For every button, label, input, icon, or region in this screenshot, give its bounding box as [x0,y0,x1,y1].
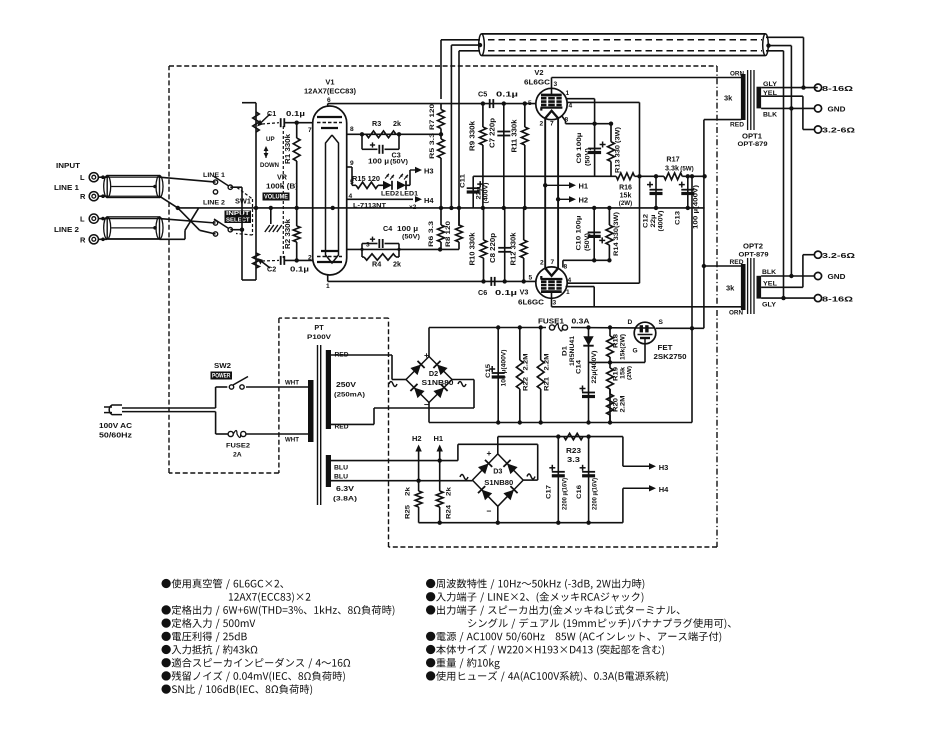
svg-text:(2W): (2W) [627,366,633,380]
svg-text:LINE 2: LINE 2 [203,200,226,207]
svg-text:3.3k: 3.3k [665,164,679,173]
svg-text:V3: V3 [520,288,529,297]
svg-text:C13: C13 [675,211,682,225]
svg-text:R17: R17 [666,155,679,164]
svg-text:BLK: BLK [762,269,776,276]
svg-text:H3: H3 [659,463,669,472]
svg-text:C2: C2 [267,265,276,274]
svg-text:3: 3 [553,300,557,307]
svg-text:100k (B): 100k (B) [266,182,299,191]
svg-text:8-16Ω: 8-16Ω [822,84,853,93]
svg-text:D: D [628,319,633,326]
svg-text:C5: C5 [478,90,487,99]
svg-text:LINE 1: LINE 1 [203,172,226,179]
svg-text:FUSE1: FUSE1 [538,319,564,326]
svg-text:R10 330k: R10 330k [470,232,477,265]
svg-text:3.2-6Ω: 3.2-6Ω [822,126,855,135]
svg-text:RED: RED [730,259,744,266]
svg-text:C1: C1 [267,109,276,118]
svg-text:C12: C12 [643,214,650,228]
svg-text:VOLUME: VOLUME [264,193,288,200]
svg-text:C7 220p: C7 220p [490,118,497,148]
svg-text:FET: FET [658,343,674,352]
svg-text:YEL: YEL [763,281,777,288]
svg-text:100 µ(400V): 100 µ(400V) [693,185,700,229]
svg-text:R19: R19 [613,367,620,381]
svg-text:(400V): (400V) [658,211,665,232]
svg-text:R23: R23 [566,448,581,455]
svg-text:2: 2 [540,260,544,267]
svg-text:BLU: BLU [334,474,348,481]
svg-text:R11 330k: R11 330k [512,119,519,152]
svg-text:3.2-6Ω: 3.2-6Ω [822,251,855,260]
svg-text:LINE 2: LINE 2 [54,225,79,234]
svg-text:BLU: BLU [334,465,348,472]
svg-text:H4: H4 [659,485,669,494]
svg-text:5: 5 [528,100,532,107]
svg-text:OPT2: OPT2 [743,242,763,251]
svg-text:(50V): (50V) [390,159,408,166]
svg-text:C10 100µ: C10 100µ [576,215,583,250]
svg-text:(2W): (2W) [619,200,632,207]
svg-text:SELECT: SELECT [226,218,250,224]
svg-text:H3: H3 [424,167,434,176]
svg-text:+: + [487,448,492,458]
svg-text:H2: H2 [579,196,589,205]
svg-text:R18: R18 [613,334,620,348]
svg-text:UP: UP [266,136,275,143]
svg-text:S: S [659,319,664,326]
svg-text:R1 330k: R1 330k [285,134,292,164]
svg-text:V1: V1 [325,78,334,87]
svg-text:R14 330(3W): R14 330(3W) [613,212,620,256]
svg-text:D3: D3 [493,467,502,476]
svg-text:2200 µ(16V): 2200 µ(16V) [592,478,599,510]
svg-text:R13 330 (3W): R13 330 (3W) [615,127,622,173]
svg-text:C9 100µ: C9 100µ [576,132,583,163]
svg-text:C4: C4 [383,224,392,233]
svg-text:L: L [80,215,85,224]
svg-text:6L6GC: 6L6GC [524,78,551,87]
svg-text:9: 9 [350,160,354,167]
svg-text:0.1µ: 0.1µ [286,109,305,118]
svg-text:2: 2 [540,121,544,128]
svg-text:R15 120: R15 120 [352,176,380,183]
svg-text:SW2: SW2 [214,361,231,370]
svg-text:12AX7(ECC83): 12AX7(ECC83) [304,87,356,96]
svg-text:22µ: 22µ [650,214,657,227]
svg-text:(5W): (5W) [680,166,693,173]
svg-text:R22: R22 [523,377,530,391]
svg-text:H2: H2 [412,434,422,443]
svg-text:ORN: ORN [729,310,743,317]
svg-text:OPT-879: OPT-879 [738,141,768,148]
svg-text:×2: ×2 [409,204,417,211]
svg-text:GND: GND [828,272,847,281]
svg-text:3: 3 [554,81,558,88]
svg-text:8: 8 [564,264,568,271]
svg-text:H4: H4 [424,196,434,205]
svg-text:100 µ: 100 µ [368,157,389,166]
svg-text:250V: 250V [336,380,356,389]
svg-text:8: 8 [350,126,354,133]
svg-text:2.2M: 2.2M [544,353,551,370]
svg-text:(250mA): (250mA) [334,391,365,398]
svg-text:L: L [80,173,85,182]
svg-text:22µ(400V): 22µ(400V) [591,351,598,384]
svg-text:R16: R16 [619,184,632,191]
svg-text:0.1µ: 0.1µ [290,265,309,274]
svg-text:R8 120: R8 120 [445,221,452,247]
svg-text:0.3A: 0.3A [572,319,590,326]
svg-text:2.2M: 2.2M [523,353,530,370]
svg-text:7: 7 [551,259,555,266]
svg-text:OPT1: OPT1 [742,132,762,141]
svg-text:R12 330k: R12 330k [511,232,518,265]
svg-text:LED2: LED2 [381,191,399,198]
svg-text:7: 7 [308,127,312,134]
svg-text:2200 µ(16V): 2200 µ(16V) [562,478,569,510]
svg-text:3: 3 [366,242,370,249]
svg-text:GLY: GLY [763,81,778,88]
svg-text:15k(2W): 15k(2W) [620,334,627,360]
svg-text:D1: D1 [562,346,569,356]
svg-text:−: − [487,506,492,516]
svg-text:POWER: POWER [212,373,231,379]
svg-text:WHT: WHT [285,380,299,387]
svg-text:C11: C11 [460,174,467,188]
svg-text:ORN: ORN [730,70,744,77]
svg-text:C15: C15 [485,364,492,378]
svg-text:2k: 2k [393,119,401,128]
svg-text:22µ: 22µ [476,186,483,199]
svg-text:1: 1 [566,289,570,296]
svg-text:FUSE2: FUSE2 [226,443,250,450]
svg-text:G: G [633,348,638,355]
svg-text:2k: 2k [393,260,401,269]
svg-text:GLY: GLY [762,302,777,309]
svg-text:(50V): (50V) [584,233,591,251]
svg-text:2k: 2k [446,487,453,496]
svg-text:3k: 3k [724,94,733,103]
svg-text:1: 1 [326,283,330,290]
svg-text:3.3: 3.3 [567,457,580,464]
svg-text:R7 120: R7 120 [429,104,436,130]
svg-text:C8 220p: C8 220p [490,233,497,263]
svg-text:INPUT: INPUT [226,211,250,217]
svg-text:2k: 2k [405,487,412,496]
svg-text:R20: R20 [613,398,620,412]
svg-text:R24: R24 [446,505,453,519]
svg-text:R: R [80,192,86,201]
svg-text:2A: 2A [233,452,242,459]
svg-text:6L6GC: 6L6GC [518,298,545,307]
svg-text:DOWN: DOWN [260,162,280,169]
svg-text:R25: R25 [405,505,412,519]
svg-text:D2: D2 [429,369,438,378]
svg-text:100 µ(400V): 100 µ(400V) [501,350,508,387]
svg-text:1: 1 [566,90,570,97]
svg-text:R9 330k: R9 330k [470,121,477,151]
svg-text:0.1µ: 0.1µ [495,288,517,297]
svg-text:5: 5 [529,275,533,282]
svg-text:SW1: SW1 [235,197,251,206]
svg-text:YEL: YEL [763,90,777,97]
svg-text:R5 3.3: R5 3.3 [429,133,436,159]
svg-text:P100V: P100V [307,334,332,341]
svg-text:R3: R3 [372,119,381,128]
svg-text:7: 7 [550,121,554,128]
svg-text:LINE 1: LINE 1 [54,183,79,192]
svg-text:VR: VR [277,173,288,182]
svg-text:2SK2750: 2SK2750 [654,352,687,361]
svg-text:2: 2 [308,255,312,262]
svg-text:R21: R21 [544,377,551,391]
svg-text:R4: R4 [372,260,381,269]
svg-text:R2 330k: R2 330k [285,219,292,249]
svg-text:4: 4 [569,103,573,110]
svg-text:GND: GND [828,105,847,114]
svg-text:(400V): (400V) [483,183,490,204]
svg-text:0.1µ: 0.1µ [496,90,518,99]
svg-text:V2: V2 [534,68,543,77]
svg-text:S1NB80: S1NB80 [422,380,454,387]
svg-text:8-16Ω: 8-16Ω [822,294,853,303]
svg-text:H1: H1 [579,182,589,191]
svg-text:15k: 15k [620,192,632,199]
svg-text:3k: 3k [726,284,735,293]
svg-text:(50V): (50V) [402,234,420,241]
svg-text:(3.8A): (3.8A) [333,496,357,503]
svg-text:2.2M: 2.2M [620,395,627,412]
svg-text:INPUT: INPUT [56,161,80,170]
svg-text:100V AC: 100V AC [99,421,132,430]
svg-text:H1: H1 [434,434,444,443]
svg-text:L-7113NT: L-7113NT [353,202,386,209]
svg-text:S1NB80: S1NB80 [484,480,513,487]
svg-text:C6: C6 [478,288,487,297]
svg-text:6.3V: 6.3V [336,484,354,493]
svg-text:100 µ: 100 µ [397,224,418,233]
svg-text:PT: PT [314,323,324,332]
svg-text:R6 3.3: R6 3.3 [428,221,435,247]
svg-text:RED: RED [730,121,744,128]
svg-text:C14: C14 [576,360,583,374]
svg-text:(50V): (50V) [585,148,592,166]
svg-text:15k: 15k [620,367,627,379]
svg-text:WHT: WHT [285,437,299,444]
svg-text:BLK: BLK [763,112,777,119]
svg-text:50/60Hz: 50/60Hz [99,431,132,440]
svg-text:C17: C17 [546,485,553,499]
svg-text:OPT-879: OPT-879 [739,252,769,259]
svg-text:C16: C16 [576,485,583,499]
svg-text:R: R [80,236,86,245]
